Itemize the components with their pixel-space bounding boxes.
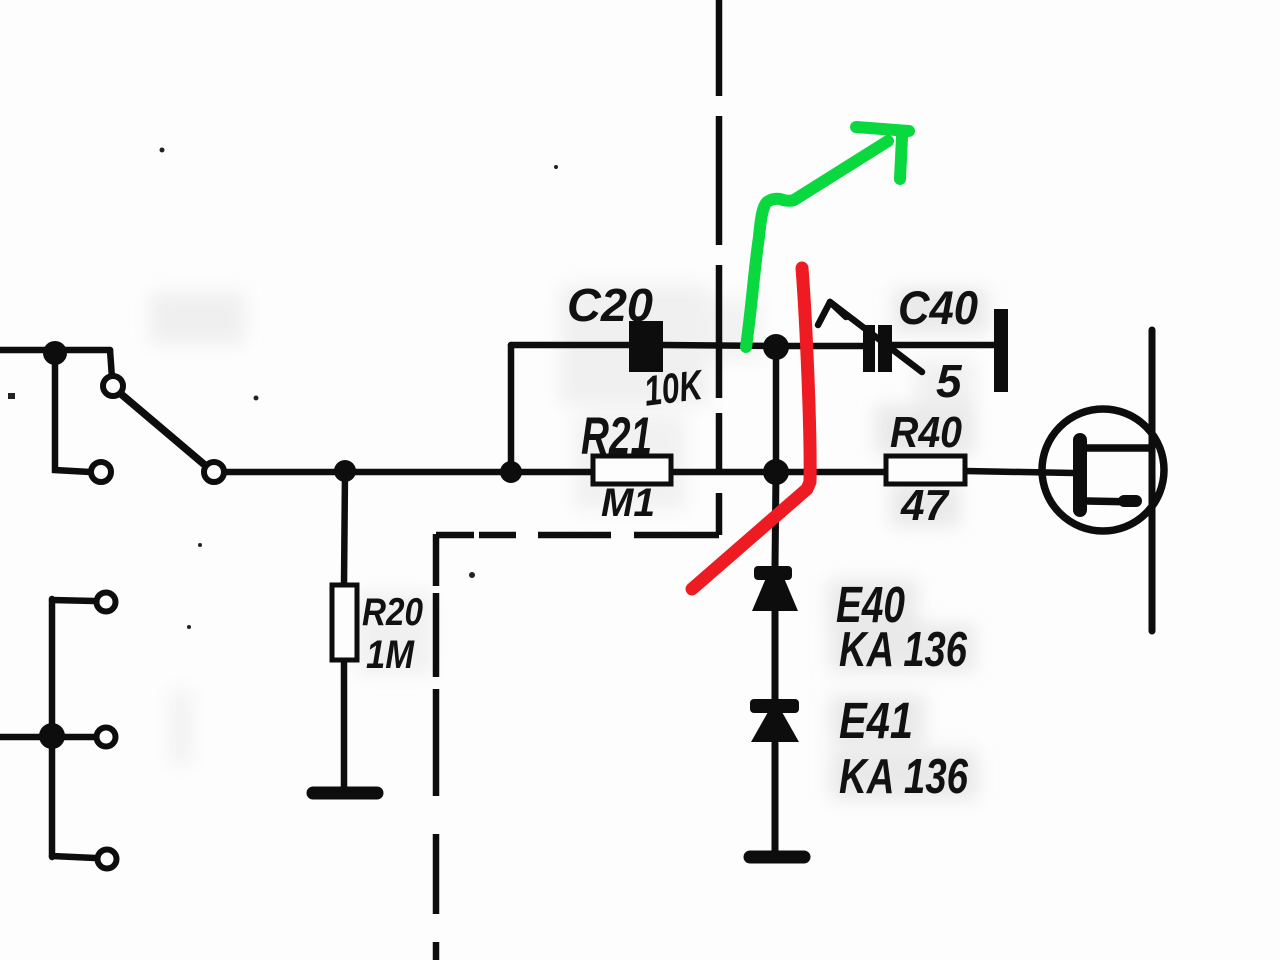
svg-text:R21: R21 bbox=[581, 407, 652, 466]
svg-text:KA 136: KA 136 bbox=[839, 623, 968, 677]
svg-text:M1: M1 bbox=[601, 481, 655, 525]
svg-text:C20: C20 bbox=[567, 279, 653, 331]
svg-text:E41: E41 bbox=[839, 692, 913, 749]
svg-text:47: 47 bbox=[900, 481, 950, 530]
svg-text:C40: C40 bbox=[898, 281, 978, 334]
svg-text:R40: R40 bbox=[890, 408, 962, 457]
svg-text:1M: 1M bbox=[366, 633, 415, 677]
svg-text:5: 5 bbox=[936, 355, 963, 407]
svg-text:KA 136: KA 136 bbox=[839, 750, 969, 804]
svg-text:R20: R20 bbox=[362, 591, 423, 634]
